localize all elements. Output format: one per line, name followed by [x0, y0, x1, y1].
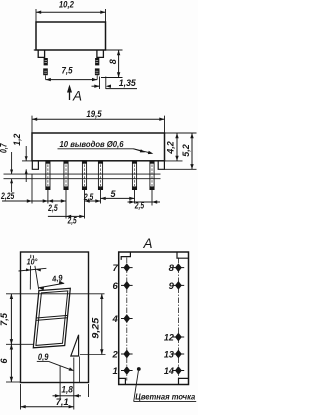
view A: pin 7 [113, 263, 133, 274]
seven-segment digit 8 (slanted) [33, 288, 70, 348]
dimension 2,5 (leads 5-6) [128, 190, 161, 210]
svg-text:4,2: 4,2 [166, 141, 176, 155]
svg-text:8: 8 [169, 263, 175, 274]
dimension 1,8 (decimal point offset) [53, 358, 89, 410]
side view: package body [32, 133, 165, 161]
svg-text:1,2: 1,2 [12, 134, 22, 146]
svg-text:13: 13 [164, 349, 175, 360]
side view: lead 5 [132, 161, 136, 190]
top view: right lead (broken) [95, 58, 100, 80]
dimension 9,25 (digit height) [80, 294, 106, 355]
svg-text:7,5: 7,5 [0, 313, 9, 326]
dimension 2,5 (leads 2-3, lower row) [48, 190, 85, 225]
svg-text:9,25: 9,25 [91, 318, 101, 339]
label Tsvetnaya tochka [134, 393, 197, 402]
svg-text:7: 7 [113, 263, 119, 274]
side view: lead 4 [98, 161, 102, 190]
dimension 19,5 (body length) [32, 109, 165, 132]
dimension 2,25 (edge to first lead) [0, 174, 48, 203]
dimension 7,1 (face width to dp) [21, 384, 74, 410]
dimension 7,5 (lead row spacing) [46, 66, 98, 82]
svg-text:10,2: 10,2 [59, 0, 74, 10]
view A: right lead centerline [177, 258, 179, 381]
view A: package back outline [119, 252, 189, 385]
svg-text:9: 9 [169, 281, 175, 292]
dimension 1,35 (lead width) [92, 77, 138, 90]
view A: pin 8 [169, 263, 185, 274]
dimension 5 (leads 4-5) [101, 189, 135, 204]
svg-text:4: 4 [112, 314, 119, 325]
top view: right lead collar [97, 50, 104, 57]
view A: pin 14 [164, 366, 184, 377]
dimension 2,5 (leads 3-4) [83, 190, 100, 204]
side view: lead 3 [82, 161, 86, 190]
dimension 10,2 (top view body width) [36, 0, 106, 21]
view A: pin 1 [113, 366, 133, 377]
svg-text:0,7: 0,7 [0, 143, 8, 153]
svg-text:8: 8 [108, 59, 118, 64]
top view: left lead collar [38, 50, 44, 57]
view A: corner key marks [119, 252, 188, 384]
svg-text:10°: 10° [27, 258, 38, 267]
dimension 7,5 (face: top to digit) [0, 294, 105, 345]
svg-text:5: 5 [110, 189, 116, 199]
view A: left lead centerline [126, 258, 128, 381]
dimension 4,2 (body height) [165, 133, 197, 161]
svg-text:2,5: 2,5 [83, 192, 93, 202]
dimension 8 (lead length) [101, 50, 123, 78]
decimal point segment [71, 335, 80, 383]
svg-text:1,8: 1,8 [61, 385, 73, 395]
view A: pin 13 [164, 349, 184, 360]
svg-text:0,9: 0,9 [38, 352, 49, 362]
svg-text:6: 6 [113, 281, 119, 292]
svg-text:7,5: 7,5 [62, 66, 73, 76]
top view: left lead (broken) [43, 58, 48, 80]
svg-text:1: 1 [113, 366, 118, 377]
side view: lead 6 [150, 161, 154, 190]
svg-text:2,5: 2,5 [134, 200, 144, 210]
colored dot marker (pin 1 key) [134, 367, 141, 401]
label 10 vyvodov dia 0,6 with leader [58, 140, 154, 154]
view A: pin 9 [169, 281, 185, 292]
view direction arrow A [67, 85, 82, 104]
side view: left end lead collar [32, 161, 38, 169]
view A: pin 12 [164, 332, 184, 343]
svg-text:2: 2 [112, 349, 119, 360]
side view: lead 1 [46, 161, 50, 190]
dimension 1,2 (collar height) [12, 134, 32, 182]
svg-text:2,5: 2,5 [67, 215, 77, 225]
dimension 0,7 (shoulder thickness) [0, 143, 13, 192]
angle dimension 10 deg [19, 255, 47, 290]
svg-text:A: A [72, 89, 82, 104]
svg-text:1,35: 1,35 [119, 78, 136, 88]
side view: right end lead collar [158, 161, 164, 169]
svg-text:2,5: 2,5 [47, 203, 57, 213]
view A: pin 6 [113, 281, 133, 292]
svg-text:6: 6 [0, 358, 9, 364]
dimension 4,9 (digit width) [39, 273, 64, 290]
dimension 2,5 (leads 1-2) [47, 190, 66, 219]
side view: lead 2 [64, 161, 68, 190]
view A: pin 4 [112, 314, 133, 325]
svg-text:19,5: 19,5 [86, 109, 101, 119]
svg-text:Цветная точка: Цветная точка [135, 393, 196, 402]
dimension 6 (face: digit to bottom) [0, 344, 20, 382]
lead shoulder lines (0,7 band) [4, 174, 161, 179]
svg-text:2,25: 2,25 [0, 191, 14, 201]
svg-text:14: 14 [164, 366, 175, 377]
view A: pin 2 [112, 349, 133, 360]
svg-text:7,1: 7,1 [56, 397, 69, 407]
svg-text:5,2: 5,2 [181, 144, 191, 157]
digit face: display outline [21, 252, 89, 383]
svg-text:12: 12 [164, 332, 175, 343]
label 0,9 (segment width) with leader [37, 352, 74, 371]
svg-text:A: A [142, 236, 152, 251]
dimension 5,2 (overall height) [165, 133, 197, 169]
svg-text:10 выводов Ø0,6: 10 выводов Ø0,6 [60, 140, 125, 149]
svg-text:4,9: 4,9 [50, 273, 63, 284]
top view: package body (end view) [34, 22, 123, 50]
